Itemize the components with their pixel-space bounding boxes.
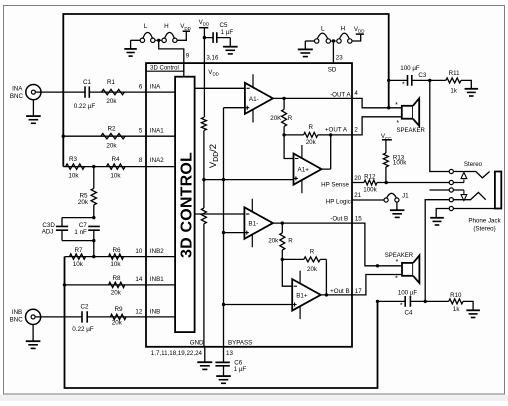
wire INB1 line <box>65 284 176 286</box>
svg-text:1k: 1k <box>450 87 457 94</box>
ground (R11) <box>465 88 479 90</box>
svg-text:20k: 20k <box>306 139 317 146</box>
resistor R11 1k <box>446 78 461 83</box>
svg-text:INB1: INB1 <box>150 276 164 283</box>
svg-text:R1: R1 <box>107 79 116 86</box>
svg-text:21: 21 <box>354 192 361 199</box>
svg-text:R: R <box>288 237 293 244</box>
wire inner block to B1- inverting input <box>195 213 245 215</box>
speaker B <box>402 263 413 276</box>
ground (R10) <box>466 309 480 311</box>
capacitor C2 <box>82 311 87 322</box>
jumper J1 <box>384 198 388 202</box>
capacitor C3D (adjustable) <box>62 218 94 241</box>
capacitor C5 1uF <box>204 37 230 39</box>
wire INA2 line <box>63 166 175 168</box>
svg-text:BNC: BNC <box>10 317 24 324</box>
svg-text:C2: C2 <box>80 304 89 311</box>
capacitor C3 100uF <box>408 75 412 86</box>
svg-text:20k: 20k <box>112 320 123 327</box>
svg-text:2: 2 <box>354 127 358 134</box>
pin 9 3D Control wire <box>159 42 184 77</box>
svg-text:20K: 20K <box>270 115 282 122</box>
svg-text:1 nF: 1 nF <box>74 229 87 236</box>
svg-text:R12: R12 <box>364 173 376 180</box>
pin 3,16 VDD wire <box>203 28 205 63</box>
svg-text:INA: INA <box>150 83 161 90</box>
svg-text:R7: R7 <box>74 247 83 254</box>
capacitor C1 <box>85 86 89 97</box>
op-amp A1+ <box>294 154 322 185</box>
wire B1- output to pin 15 <box>273 222 352 224</box>
resistor R6 10k <box>109 254 124 259</box>
wire B1+ + input from rail <box>224 304 293 306</box>
ground (C5) <box>229 38 231 47</box>
ground (INA BNC) <box>32 100 34 116</box>
svg-text:Stereo: Stereo <box>464 161 483 168</box>
svg-text:C1: C1 <box>83 79 92 86</box>
svg-text:*: * <box>396 120 399 127</box>
node B1 feedback tap <box>281 258 284 261</box>
phone jack contacts <box>453 172 489 178</box>
svg-text:3,16: 3,16 <box>206 55 219 62</box>
resistor R4 10k <box>107 164 126 169</box>
wire pin 20 HP Sense line <box>352 182 449 184</box>
op-amp IC U1 outline <box>146 63 352 347</box>
svg-text:20k: 20k <box>106 142 117 149</box>
svg-text:20k: 20k <box>307 266 318 273</box>
wire INA1 line <box>63 135 175 137</box>
resistor 20K (A1 feedback divider) <box>283 98 285 109</box>
capacitor C7 1nF <box>92 216 95 219</box>
svg-text:+Out B: +Out B <box>330 288 349 295</box>
wire feedback node to A1+ inverting input <box>284 135 293 159</box>
wire C3 coupling line <box>389 79 446 81</box>
speaker A <box>402 106 413 119</box>
svg-text:L: L <box>321 26 325 33</box>
svg-text:R11: R11 <box>449 70 460 77</box>
svg-text:R10: R10 <box>450 292 462 299</box>
svg-text:100 µF: 100 µF <box>398 290 418 297</box>
wire A1- output to pin 4 <box>273 97 352 99</box>
op-amp B1+ <box>292 279 321 311</box>
svg-text:10k: 10k <box>110 261 121 268</box>
node VDD/2 <box>202 178 205 181</box>
resistor R9 20k <box>110 314 126 319</box>
node A1- output / feedback junction <box>282 97 285 100</box>
svg-text:HP Sense: HP Sense <box>321 181 349 188</box>
node C4 / R10 / headphone ring junction <box>424 300 427 303</box>
svg-text:R8: R8 <box>112 275 121 282</box>
VDD/2 divider resistor (lower) <box>203 180 205 209</box>
svg-text:C4: C4 <box>405 310 413 317</box>
wire pin 21 HP Logic line <box>352 199 384 201</box>
wire VDD/2 reference rail (to + inputs and BYPASS) <box>223 108 225 347</box>
svg-text:BNC: BNC <box>10 93 24 100</box>
svg-text:H: H <box>164 23 169 30</box>
resistor R3 10k <box>66 164 85 169</box>
node -OUT A / speaker A junction <box>387 106 390 109</box>
svg-text:*: * <box>400 302 403 309</box>
pin 23 SD wire <box>332 43 334 63</box>
resistor R7 10k <box>70 254 86 259</box>
wire feedback to +Out B line <box>325 259 327 295</box>
svg-text:INB: INB <box>12 309 22 316</box>
svg-text:R2: R2 <box>107 125 116 132</box>
svg-text:SD: SD <box>328 67 337 74</box>
wire VDD/2 horizontal to A1+ <box>204 179 294 181</box>
ground (GND pins) <box>204 347 206 362</box>
wire A1+ output up to +OUT A <box>322 135 331 169</box>
svg-text:R: R <box>308 124 313 131</box>
node +Out B / feedback junction <box>325 293 328 296</box>
resistor R12 100k <box>364 180 377 185</box>
svg-text:J1: J1 <box>402 193 409 200</box>
wire A1- + input from rail <box>224 107 245 109</box>
svg-text:GND: GND <box>190 339 204 346</box>
connector INB BNC <box>25 309 40 324</box>
3D Control label box <box>146 63 184 71</box>
svg-text:17: 17 <box>355 288 362 295</box>
ground (J1) <box>396 202 398 210</box>
svg-text:14: 14 <box>135 276 142 283</box>
node C3 / R11 / headphone tip junction <box>428 79 431 82</box>
ground (C6) <box>216 375 231 377</box>
wire pin 4 to speaker A top <box>352 98 402 107</box>
resistor 20k (B1 feedback divider) <box>281 223 283 233</box>
wire headphone ring drive (from C4) <box>425 200 449 302</box>
svg-text:0.22 µF: 0.22 µF <box>74 103 96 110</box>
node R2 tap on -OUT A bus <box>62 135 65 138</box>
VDD/2 divider resistor (upper) <box>203 63 205 117</box>
power VDD (S2) <box>352 34 361 41</box>
node -Out B / C4 branch <box>376 264 379 267</box>
svg-text:R4: R4 <box>111 156 120 163</box>
svg-text:*: * <box>395 102 398 109</box>
svg-text:-OUT A: -OUT A <box>330 91 351 98</box>
resistor R8 20k <box>109 282 125 287</box>
svg-text:-Out B: -Out B <box>330 215 348 222</box>
svg-text:R: R <box>310 249 315 256</box>
svg-text:B1+: B1+ <box>296 293 308 300</box>
resistor R2 20k <box>101 134 125 139</box>
svg-text:15: 15 <box>355 216 362 223</box>
resistor R5 20k <box>93 167 95 218</box>
wire C4 coupling line <box>378 300 426 302</box>
svg-text:5: 5 <box>139 128 143 135</box>
svg-text:Phone Jack: Phone Jack <box>468 218 501 225</box>
resistor R1 20k <box>102 89 125 94</box>
svg-text:INA: INA <box>12 86 23 93</box>
svg-text:0.22 µF: 0.22 µF <box>72 326 94 333</box>
node R7/R6/C7 junction <box>92 255 95 258</box>
svg-text:1 µF: 1 µF <box>221 29 234 36</box>
wire B1+ output to pin 17 <box>321 294 352 296</box>
node R12/R13 junction <box>385 181 388 184</box>
svg-text:+OUT A: +OUT A <box>325 127 348 134</box>
svg-text:*: * <box>402 82 405 89</box>
svg-text:1,7,11,18,19,22,24: 1,7,11,18,19,22,24 <box>151 350 203 357</box>
svg-text:1 µF: 1 µF <box>234 366 247 373</box>
svg-text:R3: R3 <box>69 156 78 163</box>
svg-text:R9: R9 <box>114 306 123 313</box>
wire INB2 line <box>65 256 176 258</box>
wire pin 17 to speaker B bottom <box>352 275 402 295</box>
ground (INB BNC) <box>32 325 34 342</box>
svg-text:H: H <box>341 26 346 33</box>
node R3/R4/R5 junction <box>92 165 95 168</box>
resistor R 20k (B1+ feedback) <box>282 258 326 260</box>
svg-text:INB: INB <box>150 309 160 316</box>
svg-text:9: 9 <box>186 53 190 60</box>
svg-text:20k: 20k <box>106 98 117 105</box>
svg-text:B1-: B1- <box>248 221 258 228</box>
svg-text:23: 23 <box>336 55 343 62</box>
resistor R13 100k <box>383 153 388 167</box>
switch S2 SD L/H <box>305 40 314 42</box>
ground (jack sleeve) <box>436 209 449 218</box>
switch S1 3D control L/H <box>131 39 141 41</box>
node -OUT A / C3 junction <box>387 79 390 82</box>
svg-text:100k: 100k <box>363 187 377 194</box>
ground (S2) <box>304 41 306 49</box>
svg-text:4: 4 <box>354 90 358 97</box>
capacitor C4 100uF <box>405 296 410 307</box>
svg-text:3D Control: 3D Control <box>150 66 179 72</box>
op-amp A1- <box>245 83 273 114</box>
node R8 tap on -Out B bus <box>63 283 66 286</box>
svg-text:*: * <box>396 257 399 266</box>
svg-text:100k: 100k <box>393 160 407 167</box>
svg-text:13: 13 <box>226 350 233 357</box>
svg-text:10k: 10k <box>73 261 84 268</box>
wire headphone tip drive (from C3) <box>430 80 450 171</box>
wire -OUT A feedback bus (top rail / left rail / right drop) <box>63 14 388 167</box>
svg-text:8: 8 <box>139 157 143 164</box>
resistor R10 1k <box>425 300 449 302</box>
wire +OUT A line <box>284 134 352 136</box>
node A1 feedback / +OUT A tap <box>282 133 285 136</box>
wire B1- + input from rail <box>224 232 245 234</box>
op-amp B1- <box>244 207 273 239</box>
svg-text:20k: 20k <box>268 237 279 244</box>
wire pin 15 to speaker B top <box>352 223 402 266</box>
svg-text:HP Logic: HP Logic <box>326 199 351 206</box>
connector INA BNC <box>26 85 41 100</box>
block 3D CONTROL <box>175 77 195 332</box>
svg-text:INA1: INA1 <box>150 128 164 135</box>
svg-text:10k: 10k <box>68 173 79 180</box>
svg-text:BYPASS: BYPASS <box>228 339 252 346</box>
wire pin 2 to speaker A bottom <box>352 117 402 135</box>
wire feedback node to B1+ inverting input <box>282 259 292 286</box>
wire -Out B feedback bus (bottom rail / left rail / right drop) <box>65 257 378 388</box>
svg-text:12: 12 <box>135 309 142 316</box>
svg-text:6: 6 <box>139 83 143 90</box>
wire INA input line <box>35 91 175 93</box>
svg-text:20k: 20k <box>111 289 122 296</box>
node C4 left junction <box>376 300 379 303</box>
svg-text:R: R <box>288 115 293 122</box>
node B1- output / feedback junction <box>281 221 284 224</box>
svg-text:3D CONTROL: 3D CONTROL <box>178 152 195 258</box>
svg-text:10k: 10k <box>110 173 121 180</box>
ground (S1) <box>130 40 132 49</box>
svg-text:A1+: A1+ <box>298 167 310 174</box>
svg-text:10: 10 <box>135 248 142 255</box>
svg-text:INB2: INB2 <box>150 248 164 255</box>
svg-text:A1-: A1- <box>249 96 259 103</box>
svg-text:*: * <box>395 273 398 282</box>
svg-text:20k: 20k <box>78 199 89 206</box>
svg-text:1k: 1k <box>453 306 460 313</box>
svg-text:R6: R6 <box>112 247 121 254</box>
svg-text:ADJ: ADJ <box>42 229 54 236</box>
svg-text:20: 20 <box>354 175 361 182</box>
svg-text:C3: C3 <box>418 72 426 79</box>
phone jack body <box>495 172 501 209</box>
svg-text:SPEAKER: SPEAKER <box>385 253 414 259</box>
wire INB input line <box>35 316 175 318</box>
svg-text:100 µF: 100 µF <box>400 65 420 72</box>
svg-text:SPEAKER: SPEAKER <box>397 128 426 134</box>
node +OUT A / A1+ output junction <box>329 133 332 136</box>
svg-text:L: L <box>144 23 148 30</box>
node VDD / C5 junction <box>203 36 206 39</box>
resistor R 20k (A1+ feedback) <box>304 132 318 137</box>
power VDD (S1) <box>177 31 186 40</box>
wire inner block to A1- inverting input <box>195 87 245 89</box>
capacitor C6 1uF (bypass) <box>223 347 225 363</box>
svg-text:(Stereo): (Stereo) <box>473 225 495 232</box>
svg-text:INA2: INA2 <box>150 157 164 164</box>
